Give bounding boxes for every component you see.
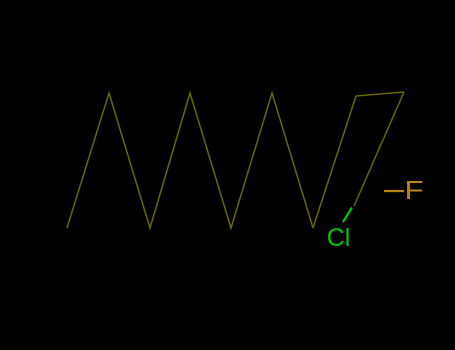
wire: bond C9-C10 (down to CFCl vertex) [354,92,404,206]
wire: carbon zigzag chain C1-C7 [67,93,313,228]
wire: C-F bond stub [384,190,404,192]
wire: bond C7-C8 [313,96,356,228]
svg-text:Cl: Cl [327,224,351,252]
wire: C-Cl bond [343,208,352,223]
svg-text:F: F [405,176,424,205]
wire: bond C8-C9 top connector [356,92,404,96]
